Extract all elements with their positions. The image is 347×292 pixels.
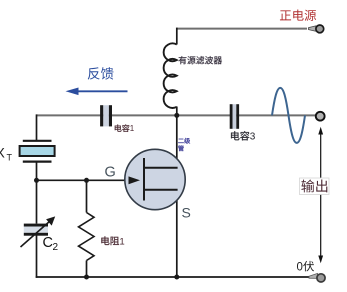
svg-text:S: S [182, 205, 191, 221]
output dimension arrow line [320, 130, 322, 260]
sine wave at output [272, 88, 305, 143]
label: 二级管 line2 [178, 145, 184, 151]
capacitor C1 (电容1) [103, 105, 109, 126]
capacitor C3 (电容3) [233, 104, 237, 129]
node: resistor bottom junction [84, 275, 89, 280]
label: 电容1 [115, 124, 135, 133]
label: 二级管 line1 [178, 138, 190, 144]
terminal: output circle [316, 112, 325, 121]
label: 0伏 [297, 261, 315, 274]
node: crystal/gate junction [34, 178, 39, 183]
wire: main horizontal feedback/output wire [37, 114, 317, 116]
wire: gate wire [37, 179, 139, 181]
label: 电容3 [231, 131, 256, 142]
svg-text:X: X [0, 145, 6, 161]
wire: inductor top stem [176, 28, 178, 45]
svg-text:0: 0 [297, 262, 303, 274]
wire: top supply wire [177, 28, 307, 30]
svg-text:G: G [105, 165, 116, 181]
arrow across C2 [21, 221, 51, 247]
label: 电阻1 [101, 236, 124, 247]
terminal: 0V circle [317, 274, 325, 282]
wire: resistor bottom lead [86, 261, 88, 278]
label box 输出 [300, 178, 330, 195]
node: source bottom junction [174, 275, 179, 280]
wire: inductor bottom stem [176, 107, 178, 117]
transistor Q1 internal: source bar [143, 189, 178, 191]
feedback arrow (反馈) [76, 90, 128, 92]
wire: drain-source vertical rail [176, 115, 178, 277]
inductor L1 (active filter coil) [164, 43, 177, 108]
svg-text:2: 2 [53, 242, 59, 253]
svg-text:3: 3 [250, 132, 256, 143]
crystal XT [23, 140, 52, 142]
svg-text:1: 1 [119, 236, 124, 247]
wire: bottom ground wire [36, 276, 318, 278]
wire: left rail C2 to bottom [36, 236, 38, 278]
svg-text:C: C [43, 235, 53, 251]
svg-text:1: 1 [130, 124, 135, 133]
node: drain/inductor junction [174, 113, 179, 118]
terminal: positive supply circle [316, 25, 324, 33]
label: 有源滤波器 (inductor) [179, 56, 222, 64]
wire: left rail upper (to crystal) [36, 114, 38, 140]
label: 反馈 [88, 67, 114, 79]
transistor Q1 internal: channel bar [143, 158, 145, 201]
transistor Q1 (MOSFET) body circle [125, 149, 185, 209]
resistor R1 (电阻1) zigzag [79, 213, 95, 261]
label: 输出 [301, 179, 327, 192]
svg-text:T: T [7, 153, 13, 163]
variable capacitor C2 [24, 227, 48, 233]
label: 正电源 [280, 10, 316, 21]
wire: left rail crystal to C2 [36, 162, 38, 224]
transistor Q1 gate arrowhead [129, 176, 141, 184]
terminal: positive supply lead taper [309, 26, 316, 31]
transistor Q1 internal: drain bar [143, 167, 178, 169]
wire: resistor top lead [86, 180, 88, 212]
node: resistor top junction [84, 178, 89, 183]
terminal: 0V lead taper [309, 273, 318, 278]
